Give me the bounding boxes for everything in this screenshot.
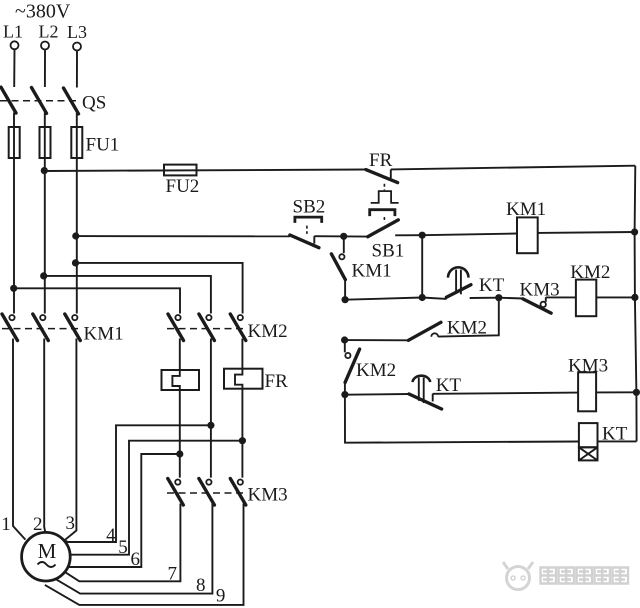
- svg-text:L2: L2: [39, 22, 59, 42]
- coil KM1: [517, 217, 538, 253]
- label KT coil: [602, 423, 628, 444]
- fuse FU1 element 3: [71, 127, 82, 158]
- wire motor lead 9: [45, 504, 244, 605]
- svg-text:KM1: KM1: [506, 199, 546, 220]
- label lead 2: [33, 514, 43, 535]
- wire left rail bottom + bottom rail: [345, 395, 579, 443]
- wire SB2 to SB1: [314, 235, 367, 237]
- node C (left rail rung1): [342, 296, 349, 303]
- auxiliary contact KM2 (NO rung2): [408, 322, 441, 340]
- coil KM3: [578, 372, 596, 411]
- label KT rung3: [436, 375, 462, 396]
- contact SB1 (NO) blade: [368, 220, 399, 237]
- label FU2: [166, 176, 200, 197]
- thermal relay FR heater 2: [224, 369, 263, 389]
- wire feed to KM2 pole 1: [14, 288, 180, 313]
- node L3 branch: [72, 259, 79, 266]
- label KM2 coil: [570, 262, 610, 283]
- fuse FU1 element 2: [40, 127, 51, 158]
- wire motor lead 8: [55, 504, 212, 594]
- wire KM1 pole1 to motor lead 1: [13, 339, 25, 540]
- node A (SB2 out / left rail top): [340, 233, 347, 240]
- svg-text:6: 6: [130, 549, 140, 570]
- node L2-FU2 junction: [41, 167, 48, 174]
- node I (left rail rung3): [341, 391, 348, 398]
- node G (rail rung KM1): [631, 228, 638, 235]
- wire L1 drop: [13, 49, 15, 87]
- label QS: [82, 93, 106, 114]
- node H (left rail rung2): [341, 336, 348, 343]
- time relay contact KT (NO on-delay): [446, 267, 471, 297]
- svg-text:FU2: FU2: [166, 176, 200, 197]
- KM2 linkage (dashed): [167, 328, 247, 330]
- label FU1: [86, 135, 120, 156]
- wire coil KM3 to rail: [596, 391, 636, 393]
- label KM2 rung2: [447, 317, 487, 338]
- push button contact SB2 (NC): [290, 235, 319, 248]
- switch QS pole 3: [64, 88, 79, 114]
- push button SB2 bracket: [295, 217, 322, 223]
- label lead 6: [130, 549, 140, 570]
- svg-text:SB2: SB2: [293, 196, 326, 217]
- label FR contact: [369, 150, 393, 171]
- thermal relay FR heater 1: [162, 370, 200, 390]
- svg-text:KM2: KM2: [570, 262, 610, 283]
- svg-text:KM2: KM2: [248, 321, 288, 342]
- svg-text:KT: KT: [479, 275, 505, 296]
- wire rung2 right riser: [438, 298, 499, 337]
- node B (SB1 right): [419, 232, 426, 239]
- SB1 actuator stems (dashed): [383, 184, 385, 223]
- svg-text:FU1: FU1: [86, 135, 120, 156]
- label KM1 coil: [506, 199, 546, 220]
- wire L2 drop: [44, 50, 46, 88]
- watermark text: [541, 568, 629, 584]
- label KM3 interlock: [520, 279, 560, 300]
- wire FR heater2 down: [241, 389, 243, 478]
- svg-text:KM3: KM3: [568, 355, 608, 376]
- time relay coil KT: [579, 423, 598, 460]
- node lead-6 tap: [176, 450, 183, 457]
- time relay contact KT (NC off-delay): [409, 376, 442, 409]
- node D (rung1 / junction B): [419, 294, 426, 301]
- interlock contact KM3 (NC): [523, 297, 551, 313]
- contactor KM3 main pole 1: [168, 479, 184, 506]
- node F (rail rung KM2): [631, 294, 638, 301]
- contactor KM1 main pole 1: [2, 314, 18, 341]
- switch QS pole 2: [32, 88, 47, 114]
- svg-text:KM1: KM1: [84, 323, 124, 344]
- wire top rail right: [391, 166, 636, 170]
- wire rung1 left: [345, 298, 447, 300]
- wire SB1 to junction B: [395, 234, 422, 236]
- watermark logo: [503, 562, 533, 590]
- label ~380V: [15, 1, 71, 23]
- push button SB1 cap: [371, 191, 399, 203]
- label KM3 main: [248, 484, 288, 505]
- push button SB1 bracket: [370, 210, 395, 216]
- wire FR heater1 down: [179, 390, 181, 478]
- node L3-SB2 junction: [72, 232, 79, 239]
- wire node E to KM3 contact: [499, 297, 523, 300]
- node L2 branch: [40, 272, 47, 279]
- svg-text:KM1: KM1: [352, 261, 392, 282]
- label KM1 aux: [352, 261, 392, 282]
- svg-text:3: 3: [66, 513, 76, 534]
- terminal L3: [67, 22, 87, 51]
- wire KM2 pole3 down: [241, 339, 243, 369]
- contactor KM2 main pole 1: [168, 314, 184, 341]
- svg-text:1: 1: [1, 514, 11, 535]
- KM1 linkage (dashed): [2, 328, 80, 330]
- label SB2: [293, 196, 326, 217]
- wire coil KM2 to rail: [596, 296, 635, 298]
- contactor KM3 main pole 2: [199, 479, 215, 506]
- terminal L1: [3, 22, 23, 50]
- svg-text:FR: FR: [265, 371, 289, 392]
- wire right rail: [635, 166, 637, 442]
- svg-text:FR: FR: [369, 150, 393, 171]
- wire rung3 left: [345, 393, 409, 396]
- node L1 branch: [10, 285, 17, 292]
- terminal L2: [39, 22, 59, 50]
- node J (rail rung3): [633, 389, 640, 396]
- svg-text:~380V: ~380V: [15, 1, 71, 23]
- wire L3 drop: [76, 51, 78, 88]
- SB2 actuator stem (dashed): [306, 226, 308, 234]
- node lead-5 tap: [239, 437, 246, 444]
- label KM1 main: [84, 323, 124, 344]
- svg-text:4: 4: [106, 525, 116, 546]
- svg-text:7: 7: [168, 563, 178, 584]
- wire L1 column: [13, 113, 15, 314]
- wire control feed rail: [44, 170, 366, 172]
- svg-text:M: M: [38, 539, 57, 563]
- wire feed to KM2 pole 2: [44, 276, 211, 314]
- wire KM2 pole1 down: [179, 339, 181, 371]
- switch QS pole 1: [1, 87, 16, 113]
- label lead 9: [216, 585, 226, 606]
- wire motor lead 7: [64, 504, 181, 582]
- wire SB2 rail: [76, 235, 290, 237]
- label SB1: [372, 240, 405, 261]
- wire feed to KM2 pole 3: [76, 263, 243, 314]
- label lead 7: [168, 563, 178, 584]
- wire KM1 pole3 to motor lead 3: [65, 339, 77, 541]
- contactor KM1 main pole 2: [33, 314, 49, 341]
- label lead 1: [1, 514, 11, 535]
- contactor KM2 main pole 3: [230, 314, 246, 341]
- KM3 linkage (dashed): [167, 492, 247, 494]
- wire KT coil to rail: [598, 440, 637, 442]
- contactor KM2 main pole 2: [199, 314, 215, 341]
- label lead 3: [66, 513, 76, 534]
- contactor KM3 main pole 3: [230, 479, 246, 506]
- wire motor lead 5: [70, 441, 242, 555]
- thermal relay contact FR (NC): [366, 169, 398, 182]
- contactor KM1 main pole 3: [65, 314, 81, 341]
- wire KT to node E: [470, 297, 499, 299]
- label KM2 left rail: [356, 360, 396, 381]
- wire junction B drop: [421, 235, 423, 297]
- label lead 4: [106, 525, 116, 546]
- wire KM1 pole2 to motor lead 2: [44, 339, 45, 534]
- auxiliary contact KM1 (NO self-hold): [331, 236, 345, 299]
- fuse FU1 element 1: [9, 127, 20, 158]
- motor M: [22, 532, 71, 581]
- label KM3 coil: [568, 355, 608, 376]
- wire L2 column: [44, 113, 46, 314]
- node E: [495, 294, 502, 301]
- svg-text:5: 5: [118, 537, 128, 558]
- label KT rung1: [479, 275, 505, 296]
- coil KM2: [576, 280, 596, 317]
- label lead 8: [196, 575, 206, 596]
- wire rung3 right: [433, 393, 578, 394]
- svg-text:L1: L1: [3, 22, 23, 42]
- wire L3 column: [76, 113, 78, 314]
- label FR main: [265, 371, 289, 392]
- svg-text:KM2: KM2: [356, 360, 396, 381]
- wire KM3 to coil KM2: [546, 296, 576, 298]
- QS linkage (dashed): [0, 100, 80, 102]
- svg-text:SB1: SB1: [372, 240, 405, 261]
- label KM2 main: [248, 321, 288, 342]
- svg-text:9: 9: [216, 585, 226, 606]
- svg-text:2: 2: [33, 514, 43, 535]
- wire motor lead 6: [69, 454, 180, 567]
- svg-text:KM3: KM3: [248, 484, 288, 505]
- svg-text:QS: QS: [82, 93, 106, 114]
- wire rung KM1-coil left: [422, 234, 517, 236]
- node lead-4 tap: [207, 422, 214, 429]
- wire coil KM1 to rail: [538, 231, 635, 234]
- label lead 5: [118, 537, 128, 558]
- svg-text:8: 8: [196, 575, 206, 596]
- fuse FU2: [164, 165, 197, 176]
- svg-text:L3: L3: [67, 22, 87, 42]
- wire motor lead 4: [63, 425, 211, 542]
- auxiliary contact KM2 (NO left rail): [345, 340, 360, 395]
- wire KM2 pole2 down: [210, 339, 212, 478]
- wire rung2 left: [345, 339, 409, 341]
